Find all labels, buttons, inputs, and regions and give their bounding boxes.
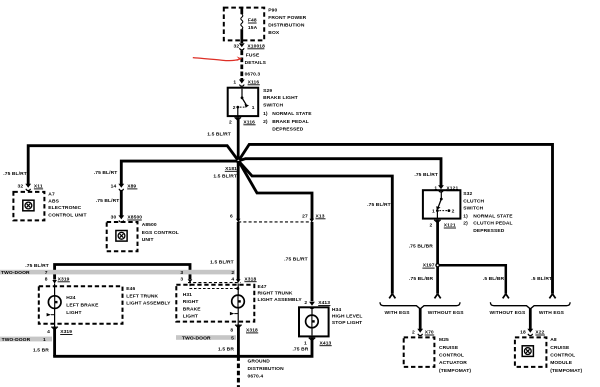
svg-text:CONTROL: CONTROL — [439, 353, 464, 359]
svg-text:1.5 BL/RT: 1.5 BL/RT — [207, 131, 231, 137]
svg-text:2: 2 — [229, 119, 232, 125]
svg-text:DISTRIBUTION: DISTRIBUTION — [268, 22, 305, 28]
wire fuse details dashed trunk — [240, 51, 243, 79]
svg-text:A8500: A8500 — [142, 222, 157, 228]
connector X116 pin 1 — [240, 78, 243, 80]
wire left to ground bus — [53, 329, 56, 356]
svg-text:TWO-DOOR: TWO-DOOR — [1, 270, 30, 276]
connector X121 pin 1 — [438, 185, 444, 192]
svg-text:1.5 BL/RT: 1.5 BL/RT — [210, 260, 234, 266]
svg-text:LEFT TRUNK: LEFT TRUNK — [126, 293, 158, 299]
svg-text:.75 BL/RT: .75 BL/RT — [25, 263, 49, 269]
svg-text:LIGHT ASSEMBLY: LIGHT ASSEMBLY — [126, 300, 171, 306]
svg-text:1: 1 — [432, 209, 435, 215]
connector X11 — [25, 184, 31, 191]
connector X10018 — [239, 43, 245, 50]
svg-text:.5 BL/BR: .5 BL/BR — [483, 276, 505, 282]
svg-text:2: 2 — [231, 270, 234, 276]
wire bracket to A8 — [529, 309, 532, 330]
svg-text:CONTROL: CONTROL — [550, 353, 575, 359]
svg-text:BRAKE: BRAKE — [183, 306, 202, 312]
svg-text:5: 5 — [231, 336, 234, 342]
trunk light assembly E47 — [176, 285, 254, 322]
svg-text:RIGHT TRUNK: RIGHT TRUNK — [258, 291, 293, 297]
wire to ABS A7 — [28, 146, 238, 185]
wire X197 branch right — [438, 265, 506, 293]
svg-text:1: 1 — [252, 105, 255, 111]
brake light bus bottom left — [55, 265, 190, 280]
svg-text:.75 BL/RT: .75 BL/RT — [94, 170, 118, 176]
wire G junction down to X13 — [237, 161, 240, 219]
svg-text:DEPRESSED: DEPRESSED — [272, 126, 304, 132]
svg-text:18: 18 — [520, 330, 526, 336]
wire end arrows above brackets — [389, 294, 395, 299]
junction X181 — [236, 158, 241, 163]
svg-text:ABS: ABS — [48, 198, 59, 204]
svg-text:BRAKE PEDAL: BRAKE PEDAL — [272, 119, 309, 125]
svg-text:TWO-DOOR: TWO-DOOR — [2, 337, 31, 343]
svg-text:2: 2 — [412, 330, 415, 336]
svg-text:H31: H31 — [183, 292, 192, 298]
svg-text:3: 3 — [180, 270, 183, 276]
svg-text:1.5 BR: 1.5 BR — [33, 348, 49, 354]
svg-text:27: 27 — [302, 213, 308, 219]
svg-text:FRONT POWER: FRONT POWER — [268, 15, 306, 21]
connector X319 pin 8 — [52, 280, 57, 284]
svg-text:WITH EGS: WITH EGS — [385, 310, 411, 316]
svg-text:3: 3 — [180, 276, 183, 282]
svg-text:1): 1) — [263, 111, 268, 117]
connector X13 — [238, 221, 312, 223]
svg-text:8: 8 — [230, 328, 233, 334]
lamp H24 — [54, 284, 56, 297]
svg-text:P90: P90 — [268, 7, 277, 13]
svg-text:STOP LIGHT: STOP LIGHT — [332, 320, 362, 326]
red annotation arrow — [193, 58, 239, 61]
svg-text:.75 BL/RT: .75 BL/RT — [96, 198, 120, 204]
svg-text:LEFT BRAKE: LEFT BRAKE — [66, 302, 99, 308]
svg-text:1): 1) — [463, 213, 468, 219]
svg-text:32: 32 — [18, 184, 24, 190]
svg-text:CLUTCH: CLUTCH — [463, 198, 484, 204]
wire D junction to X13 pin 27 — [239, 161, 313, 219]
svg-text:H34: H34 — [332, 307, 341, 313]
svg-text:.75 BL/BR: .75 BL/BR — [409, 243, 434, 249]
svg-text:0670.4: 0670.4 — [248, 373, 264, 379]
svg-text:DETAILS: DETAILS — [245, 60, 267, 66]
svg-text:(TEMPOMAT): (TEMPOMAT) — [439, 368, 471, 374]
wire D continues to H34 — [311, 222, 314, 301]
svg-text:CLUTCH PEDAL: CLUTCH PEDAL — [473, 221, 512, 227]
svg-text:ELECTRONIC: ELECTRONIC — [48, 205, 81, 211]
fuse box P90 — [224, 8, 264, 41]
svg-text:WITHOUT EGS: WITHOUT EGS — [490, 310, 526, 316]
svg-text:S32: S32 — [463, 191, 472, 197]
wire A to with-EGS right bracket — [239, 144, 553, 293]
grey variant bar two-door 1 — [0, 337, 52, 342]
svg-text:.5 BL/RT: .5 BL/RT — [531, 276, 552, 282]
svg-text:RIGHT: RIGHT — [183, 299, 199, 305]
connector X319 pin 4 — [51, 327, 57, 330]
svg-text:1.5 BR: 1.5 BR — [218, 347, 234, 353]
wire X89 to X8500 — [120, 190, 123, 215]
svg-text:14: 14 — [111, 184, 117, 190]
ground bus — [55, 340, 312, 356]
svg-text:SWITCH: SWITCH — [463, 206, 483, 212]
wire fuse feed — [240, 7, 243, 14]
svg-text:A8: A8 — [550, 337, 557, 343]
wire right to ground bus — [237, 327, 240, 356]
svg-text:GROUND: GROUND — [248, 358, 271, 364]
svg-text:8: 8 — [45, 276, 48, 282]
wire clutch to X197 — [436, 222, 439, 265]
svg-text:SWITCH: SWITCH — [263, 102, 283, 108]
svg-text:CRUISE: CRUISE — [550, 345, 570, 351]
svg-text:.75 BL/RT: .75 BL/RT — [414, 172, 438, 178]
svg-text:FUSE: FUSE — [246, 52, 260, 58]
svg-text:30: 30 — [111, 215, 117, 221]
ABS electronic control unit A7 — [13, 192, 44, 221]
svg-text:2: 2 — [452, 209, 455, 215]
svg-text:4: 4 — [47, 329, 50, 335]
svg-text:EGS CONTROL: EGS CONTROL — [142, 230, 179, 236]
svg-text:2: 2 — [304, 300, 307, 306]
EGS control unit A8500 — [107, 222, 138, 251]
svg-text:NORMAL STATE: NORMAL STATE — [272, 111, 312, 117]
svg-text:HIGH LEVEL: HIGH LEVEL — [332, 314, 363, 320]
svg-text:.75 BR: .75 BR — [292, 347, 308, 353]
svg-text:CRUISE: CRUISE — [439, 345, 459, 351]
svg-text:DEPRESSED: DEPRESSED — [473, 228, 505, 234]
high level stop light H34 — [299, 307, 329, 336]
cruise control actuator M25 — [404, 337, 435, 367]
svg-text:0670.3: 0670.3 — [245, 71, 261, 77]
wire to EGS — [121, 161, 238, 184]
svg-text:M25: M25 — [439, 337, 449, 343]
svg-text:LIGHT: LIGHT — [183, 314, 198, 320]
svg-text:BOX: BOX — [268, 30, 280, 36]
wire G continues to X318 — [237, 222, 240, 280]
svg-text:.75 BL/RT: .75 BL/RT — [3, 171, 27, 177]
svg-text:UNIT: UNIT — [142, 237, 154, 243]
svg-text:.75 BL/RT: .75 BL/RT — [367, 202, 391, 208]
svg-text:LIGHT: LIGHT — [66, 310, 81, 316]
svg-text:1.5 BL/RT: 1.5 BL/RT — [213, 174, 237, 180]
svg-text:6: 6 — [230, 213, 233, 219]
cruise control module A8 — [515, 337, 547, 367]
svg-text:MODULE: MODULE — [550, 360, 573, 366]
trunk light assembly E46 — [39, 286, 123, 324]
svg-text:4: 4 — [231, 276, 234, 282]
svg-text:.75 BL/BR: .75 BL/BR — [409, 276, 434, 282]
wire switch to junction X181 — [237, 120, 240, 162]
svg-text:TWO-DOOR: TWO-DOOR — [182, 336, 211, 342]
wire bracket to M25 — [419, 309, 422, 330]
svg-text:1: 1 — [304, 340, 307, 346]
connector X413 pin 2 — [309, 302, 315, 309]
connector X22 — [527, 329, 533, 336]
svg-text:1: 1 — [43, 337, 46, 343]
svg-text:H24: H24 — [66, 295, 75, 301]
svg-text:E46: E46 — [126, 286, 135, 292]
svg-text:F48: F48 — [248, 17, 257, 23]
connector X70 — [417, 329, 423, 336]
svg-text:BRAKE LIGHT: BRAKE LIGHT — [263, 95, 298, 101]
fuse F48 — [241, 14, 243, 29]
svg-text:15A: 15A — [248, 25, 258, 31]
internal link pin3 to lamp wire — [190, 284, 237, 289]
svg-text:ACTUATOR: ACTUATOR — [439, 360, 467, 366]
ground feed dashed — [237, 356, 240, 387]
svg-text:NORMAL STATE: NORMAL STATE — [473, 213, 513, 219]
svg-text:E47: E47 — [258, 284, 267, 290]
svg-text:A7: A7 — [48, 191, 55, 197]
svg-text:WITH EGS: WITH EGS — [539, 310, 565, 316]
wire X197 down — [436, 265, 439, 293]
connector X318 pin 8 — [235, 325, 241, 328]
svg-text:2: 2 — [233, 105, 236, 111]
connector X116 pin 2 — [235, 117, 241, 120]
connector line X318 pins 3/4 — [188, 282, 241, 284]
svg-text:LIGHT ASSEMBLY: LIGHT ASSEMBLY — [258, 297, 303, 303]
connector X89 — [118, 184, 124, 191]
wire to clutch switch S32 — [239, 159, 442, 186]
svg-text:1: 1 — [233, 79, 236, 85]
svg-text:7: 7 — [45, 270, 48, 276]
connector X121 pin 2 — [434, 220, 440, 223]
svg-text:2): 2) — [263, 119, 268, 125]
wire C to without-EGS left bracket — [239, 161, 393, 294]
svg-text:32: 32 — [234, 43, 240, 49]
clutch switch S32 — [423, 190, 461, 218]
svg-text:2): 2) — [463, 221, 468, 227]
grey variant bar X319/X318 — [0, 270, 235, 275]
bracket with/without EGS (left) — [380, 302, 460, 309]
brake light switch S29 — [228, 88, 259, 116]
lamp H31 — [237, 284, 239, 296]
svg-text:2: 2 — [430, 223, 433, 229]
bracket without/with EGS (right) — [490, 302, 570, 309]
grey variant bar two-door 5 — [176, 335, 236, 340]
svg-text:WITHOUT EGS: WITHOUT EGS — [428, 310, 464, 316]
svg-text:DISTRIBUTION: DISTRIBUTION — [248, 366, 285, 372]
connector X413 pin 1 — [309, 337, 315, 340]
svg-text:.75 BL/RT: .75 BL/RT — [284, 256, 308, 262]
svg-text:S29: S29 — [263, 88, 272, 94]
svg-text:(TEMPOMAT): (TEMPOMAT) — [550, 368, 582, 374]
svg-text:CONTROL UNIT: CONTROL UNIT — [48, 213, 86, 219]
connector X8500 — [118, 215, 124, 222]
